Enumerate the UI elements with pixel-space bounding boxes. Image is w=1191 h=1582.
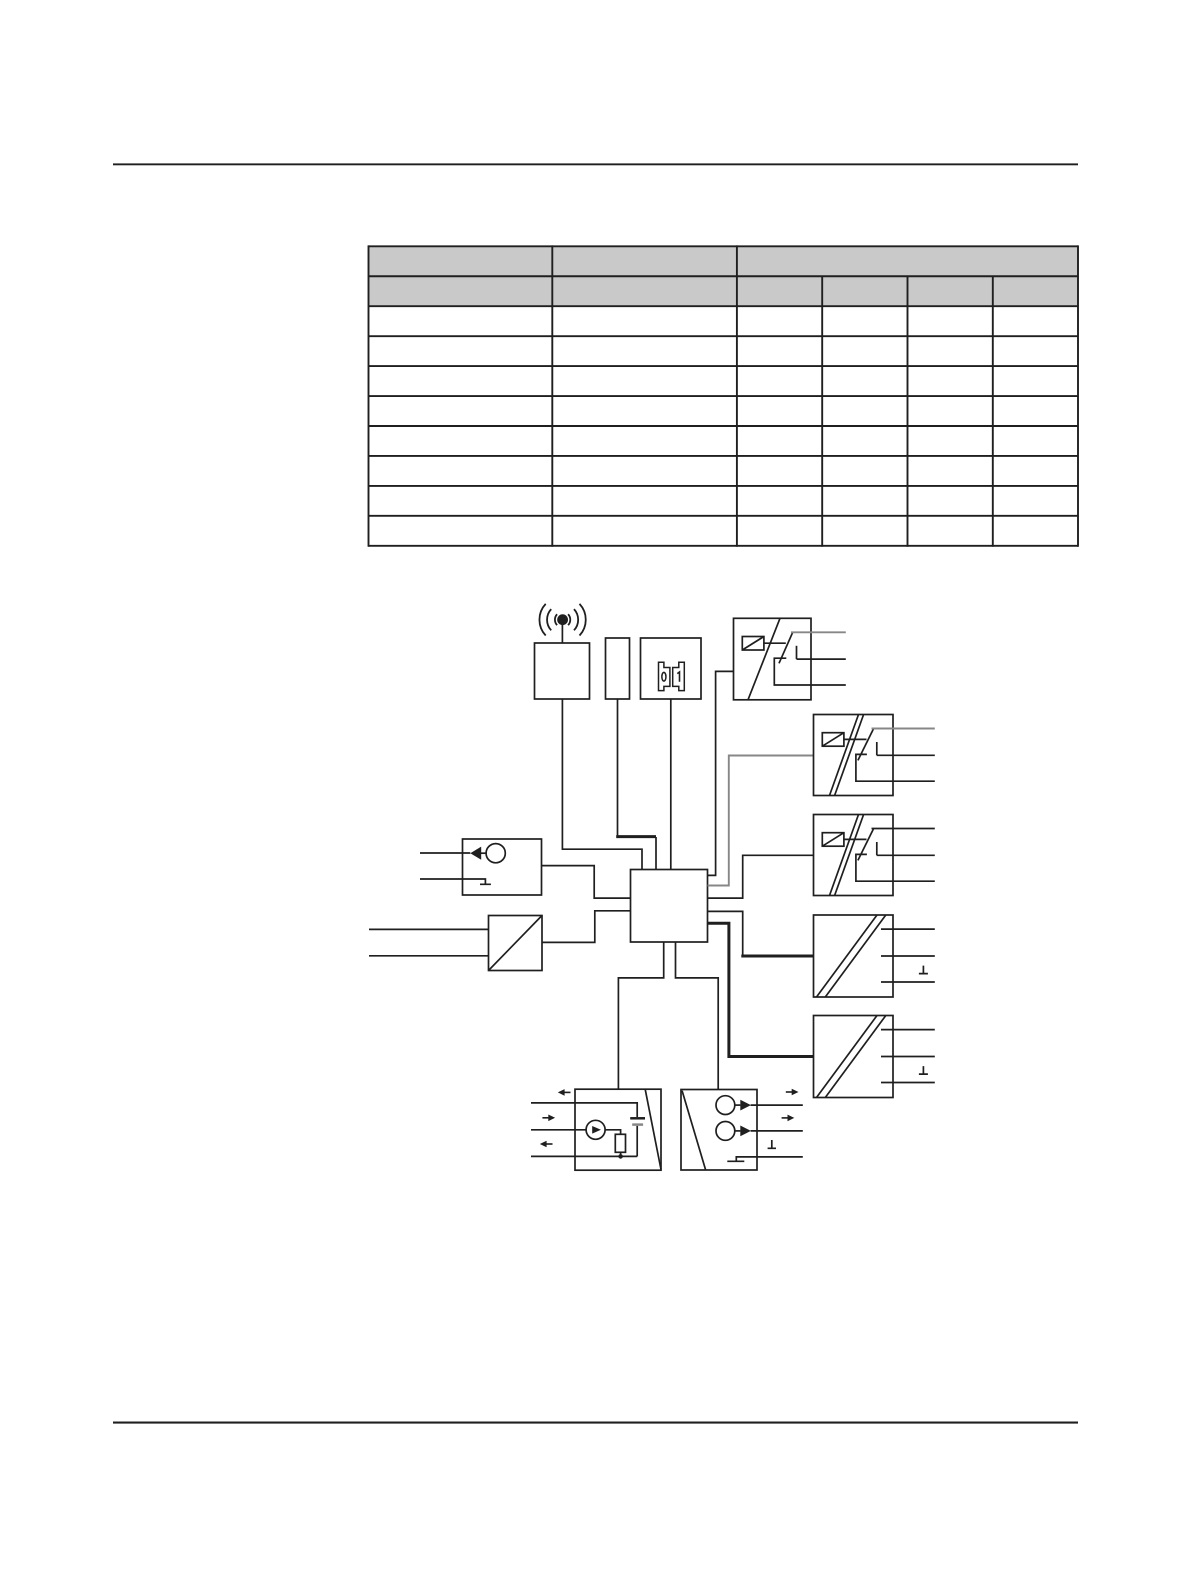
table grid: [369, 245, 1079, 546]
power supply current source triangle: [592, 1126, 601, 1134]
relay output box 1: [734, 618, 846, 700]
analog output box 2: [814, 1016, 935, 1098]
arrow right (io line 2): [782, 1115, 795, 1122]
io output box: [681, 1090, 803, 1171]
relay 2 grey contact line: [872, 728, 935, 730]
analog output box 1: [814, 915, 935, 997]
io triangle 2: [740, 1126, 751, 1137]
wire central box to relay output 1: [708, 671, 734, 875]
wire central box to io box: [676, 942, 719, 1089]
wire antenna to central box: [562, 699, 642, 870]
arrow left (supply line 3): [540, 1141, 553, 1148]
wire central box to supply box: [618, 942, 663, 1089]
display module box: [641, 638, 702, 699]
switch label 1: [677, 672, 679, 682]
arrow right (supply line 2): [542, 1115, 555, 1122]
relay output box 2: [814, 715, 935, 796]
capacitor plate top: [630, 1117, 645, 1120]
supply input box: [369, 911, 631, 971]
top rule: [113, 163, 1078, 165]
capacitor plate bottom (grey): [632, 1123, 643, 1126]
wire central box to relay output 3: [708, 855, 814, 898]
wire central box to relay output 2 (grey): [708, 756, 814, 886]
wire display module to central box: [670, 699, 672, 870]
wire central box to analog output 1: [708, 911, 743, 956]
sensor input box: [420, 839, 631, 898]
relay 1 grey contact line: [791, 631, 846, 633]
switch 1 glyph frame: [673, 662, 685, 690]
radio module box: [535, 643, 590, 699]
narrow module box: [606, 638, 630, 699]
io triangle 1: [740, 1100, 751, 1111]
wire narrow module to central box: [617, 699, 619, 836]
switch label 0: [662, 672, 666, 681]
arrow right (io line 1): [786, 1089, 799, 1096]
junction dot: [618, 1154, 623, 1159]
switch 0 glyph frame: [659, 662, 670, 690]
power supply box: [531, 1089, 661, 1170]
sensor input triangle: [470, 847, 481, 860]
arrow left (supply line 1): [558, 1089, 571, 1096]
wire central box to analog output 2 (thick): [708, 923, 814, 1056]
antenna symbol: [539, 604, 585, 636]
relay output box 3: [814, 815, 935, 896]
bottom rule: [113, 1422, 1078, 1424]
table header row 1 shading: [369, 246, 1079, 276]
table header row 2 shading: [369, 276, 1079, 306]
central electronics box: [631, 870, 708, 943]
